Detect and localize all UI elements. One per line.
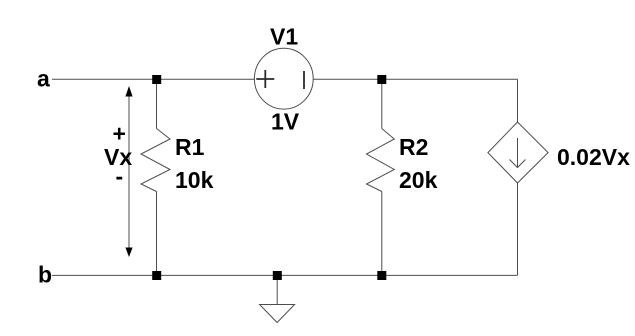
wire R1 branch lower — [156, 192, 158, 276]
ground stub wire — [276, 280, 278, 305]
svg-text:0.02Vx: 0.02Vx — [557, 144, 630, 170]
resistor R2 — [367, 129, 395, 192]
wire bottom: node b to bottom-right corner — [52, 274, 518, 276]
dependent source arrow — [510, 138, 526, 168]
svg-text:a: a — [37, 66, 50, 92]
wire right vertical: top corner to dependent source — [517, 79, 519, 122]
svg-text:R1: R1 — [175, 134, 205, 160]
junction bottom R2 — [377, 271, 386, 280]
svg-text:1V: 1V — [271, 109, 300, 135]
svg-text:10k: 10k — [175, 167, 214, 193]
wire R1 branch upper — [156, 79, 158, 128]
svg-text:V1: V1 — [270, 24, 298, 50]
wire right vertical: dependent source to bottom corner — [517, 183, 519, 275]
V1 plus terminal mark — [256, 70, 274, 88]
junction bottom ground — [273, 271, 282, 280]
wire top: V1 right terminal to top-right corner — [314, 78, 518, 80]
voltage source V1 circle — [254, 48, 313, 109]
junction bottom R1 — [152, 271, 161, 280]
svg-text:b: b — [38, 262, 52, 288]
svg-text:20k: 20k — [399, 167, 438, 193]
V1 minus terminal mark — [303, 71, 305, 89]
svg-text:R2: R2 — [399, 134, 428, 160]
svg-text:+: + — [113, 121, 126, 147]
wire top: node a to V1 left terminal — [52, 78, 255, 80]
wire R2 branch lower — [381, 192, 383, 276]
junction top R2 — [377, 75, 386, 84]
Vx measurement arrow — [125, 86, 132, 257]
wire R2 branch upper — [381, 79, 383, 128]
ground symbol — [260, 305, 295, 323]
junction top R1 — [152, 75, 161, 84]
svg-text:-: - — [116, 163, 124, 189]
resistor R1 — [141, 129, 170, 192]
dependent current source G1 diamond — [488, 122, 548, 183]
